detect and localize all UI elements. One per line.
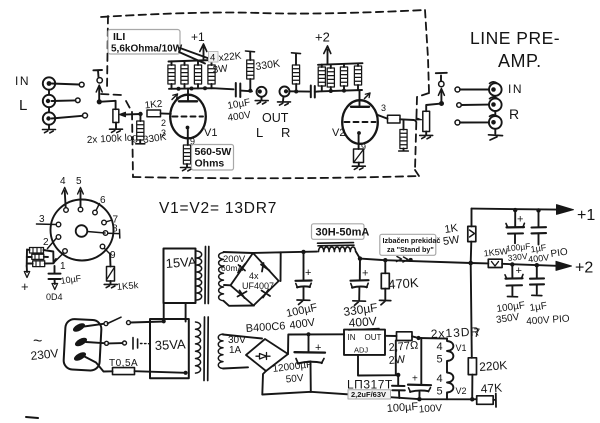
svg-text:5,6kOhma/10W: 5,6kOhma/10W <box>111 44 183 55</box>
node 330uF <box>358 256 362 260</box>
svg-text:3: 3 <box>39 214 45 225</box>
RCA jack J4 (IN R top) <box>489 83 502 96</box>
svg-text:47K: 47K <box>480 381 502 396</box>
socket pin 8 <box>103 231 108 236</box>
resistor R2 22K <box>184 61 186 65</box>
node cap 100uF 350V <box>510 262 514 266</box>
capacitor 10uF coupling V2 <box>310 86 312 98</box>
svg-text:+2: +2 <box>575 260 593 277</box>
svg-text:V2: V2 <box>456 386 467 396</box>
svg-text:1K5k: 1K5k <box>116 280 139 293</box>
node 12000uF top <box>306 332 310 336</box>
resistor 1K5 <box>109 254 112 267</box>
svg-text:100V: 100V <box>418 403 442 416</box>
svg-text:2W: 2W <box>388 354 406 367</box>
svg-text:4: 4 <box>437 341 443 353</box>
resistor 330K output R <box>292 52 301 55</box>
wire T1 sec top to bridge <box>224 252 253 253</box>
labels pins 2 3 <box>161 118 166 138</box>
label 4x UF4007 <box>242 271 274 291</box>
wire riser below +2 node <box>471 263 473 399</box>
label 30V 1A <box>228 335 246 356</box>
label LM317T <box>347 378 393 392</box>
svg-text:+: + <box>516 265 522 277</box>
node dots on plate bus <box>177 87 181 91</box>
socket center hole <box>76 225 88 237</box>
bridge B400C6 diamond <box>246 339 288 371</box>
capacitor 100uF 330V <box>514 210 516 227</box>
label box 2,2uF/63V <box>348 390 391 399</box>
capacitor 10uF cathode bypass <box>54 266 56 273</box>
svg-text:4: 4 <box>210 53 215 64</box>
fuse T0,5A <box>109 358 138 369</box>
resistor 1K2 <box>144 99 163 112</box>
V2 cathode <box>357 131 361 135</box>
svg-text:3: 3 <box>381 103 386 113</box>
resistor stack r2 <box>32 254 44 259</box>
svg-text:L: L <box>256 125 263 140</box>
T1 core <box>205 247 209 304</box>
resistor R1 22K <box>171 61 173 65</box>
label ~230V <box>30 333 59 363</box>
resistor 330K grid leak V1 <box>139 114 141 121</box>
standby arrows on rail <box>397 257 409 263</box>
resistor stack r3 <box>33 261 45 267</box>
mains plug outline <box>63 319 102 371</box>
wire ADJ network <box>358 341 398 376</box>
RCA jack J5 <box>489 98 502 111</box>
resistor 1K2 V2 <box>388 115 401 123</box>
svg-text:za "Stand by": za "Stand by" <box>387 245 434 254</box>
resistor R3 22K <box>197 61 199 65</box>
socket pin 4 <box>64 208 69 213</box>
svg-text:+2: +2 <box>315 30 330 45</box>
label +2 supply arrow <box>315 30 330 45</box>
wire top bus V2 bank <box>318 63 363 65</box>
transformer T1 15VA primary box <box>164 249 196 304</box>
svg-text:OUT: OUT <box>262 111 289 125</box>
wire top bus V1 bank <box>169 60 214 62</box>
node +2 feed <box>468 261 473 266</box>
svg-text:330V: 330V <box>507 251 528 263</box>
svg-text:15VA: 15VA <box>165 254 197 271</box>
svg-text:2: 2 <box>43 237 49 248</box>
capacitor 100uF 100V <box>408 384 431 387</box>
svg-text:30H-50mA: 30H-50mA <box>316 227 370 239</box>
svg-text:V1=V2= 13DR7: V1=V2= 13DR7 <box>159 200 277 217</box>
socket pin 5 <box>78 207 83 212</box>
svg-text:5: 5 <box>437 386 443 398</box>
wire V2 grid out <box>377 115 387 119</box>
ground under right jacks <box>494 129 496 134</box>
svg-text:2,2uF/63V: 2,2uF/63V <box>351 390 386 399</box>
resistor 470K bleeder <box>384 260 386 273</box>
transformer T2 35VA primary box <box>150 319 189 378</box>
svg-text:+1: +1 <box>191 30 205 44</box>
node cap 100uF 330V <box>513 208 517 212</box>
svg-text:470K: 470K <box>388 275 420 292</box>
T2 secondary 30V winding <box>218 334 223 368</box>
wire LM317 OUT <box>385 335 397 337</box>
potentiometer P1b 100k <box>414 118 422 123</box>
wire J1 to selector contact <box>52 84 80 85</box>
node: grid junction <box>138 112 142 116</box>
svg-text:100µF: 100µF <box>386 401 418 415</box>
resistor 330K output L <box>246 50 255 53</box>
capacitor 330uF 400V <box>359 259 361 280</box>
svg-text:8: 8 <box>112 224 118 235</box>
selector common contact with arrow <box>93 70 102 77</box>
label box ILI 5,6kOhma/10W <box>108 30 180 55</box>
svg-text:1A: 1A <box>229 345 242 356</box>
svg-text:R: R <box>281 125 290 140</box>
dashed enclosure box of preamp <box>101 10 429 178</box>
svg-text:6: 6 <box>100 195 106 206</box>
svg-text:+: + <box>362 268 368 280</box>
plug pin a <box>72 322 85 332</box>
svg-text:IN: IN <box>348 333 356 342</box>
wire plug pin c to fuse <box>85 357 113 372</box>
label box 30H-50mA <box>312 224 365 240</box>
svg-text:5W: 5W <box>442 234 461 248</box>
RCA jack J2 <box>43 95 55 107</box>
tube socket outline <box>51 200 114 261</box>
wire bottom bus V2 bank (plate node) <box>322 85 358 91</box>
wire riser +1 <box>470 209 473 263</box>
V1 grid (dashed) <box>173 116 204 118</box>
wire T2 sec bottom to bridge2 <box>223 367 248 368</box>
svg-text:ILI: ILI <box>113 31 125 43</box>
resistor R8 22K <box>357 64 359 66</box>
wire parallel primaries <box>164 303 186 322</box>
capacitor 100uF 400V <box>303 252 305 280</box>
RCA jack J6 <box>489 116 502 129</box>
tube V2 envelope <box>342 100 378 144</box>
label IN (left inputs) <box>15 74 30 114</box>
svg-text:0D4: 0D4 <box>46 292 63 302</box>
svg-text:50V: 50V <box>285 373 304 386</box>
label +1 supply arrow <box>191 30 205 44</box>
svg-text:R: R <box>509 106 519 122</box>
label 4x22K 3W <box>209 52 219 63</box>
regulator U1 LM317 <box>344 330 385 355</box>
wire bridge2 - to ground bus <box>262 371 266 395</box>
heater feed line down <box>420 338 422 384</box>
resistor 220K body <box>468 358 476 375</box>
heater V2 pins 4-5 <box>447 363 453 399</box>
T1 secondary 200V winding <box>219 253 224 301</box>
diode D4 <box>262 290 271 298</box>
wire T1 sec bottom to bridge <box>224 301 255 306</box>
wire bottom bus V1 bank (plate node) <box>172 84 212 89</box>
T1 primary winding <box>197 251 202 300</box>
V1 cathode <box>186 126 190 130</box>
heater V1 pins 4-5 <box>447 339 453 363</box>
svg-text:AMP.: AMP. <box>498 51 542 71</box>
svg-text:+: + <box>517 214 523 226</box>
wire jack chain <box>48 90 50 129</box>
scan mark bottom left <box>26 417 38 418</box>
svg-text:V1: V1 <box>456 343 467 353</box>
wire bridge2 + to LM317 IN <box>288 334 344 354</box>
wire junction to pot <box>99 101 115 110</box>
bridge 4x UF4007 diamond <box>231 253 279 306</box>
T2 primary winding <box>196 322 201 373</box>
wire plug pin b to aux contact <box>86 342 105 343</box>
svg-text:L: L <box>19 97 27 114</box>
wire J2 to selector contact <box>52 99 76 102</box>
label 2x 100k log <box>87 132 139 146</box>
capacitor 1uF 400V PIO 2 <box>536 265 538 278</box>
svg-text:560-5W: 560-5W <box>195 146 232 158</box>
svg-text:+1: +1 <box>577 207 595 224</box>
resistor 1K5W horizontal <box>483 246 509 259</box>
plug pin c <box>73 351 86 361</box>
V2 grid (dashed) <box>345 121 376 123</box>
ground arrow left (+) <box>26 266 28 272</box>
label box Izbacen prekidac <box>380 234 436 255</box>
switch S1 <box>104 322 108 326</box>
svg-text:OUT: OUT <box>365 333 382 342</box>
svg-text:Ohms: Ohms <box>195 158 225 170</box>
label IN R <box>508 82 523 122</box>
node: selector junction <box>97 99 102 104</box>
ground under pot P1a <box>115 123 117 129</box>
socket pin 3 <box>56 222 61 227</box>
title LINE PRE-AMP <box>470 28 560 71</box>
socket pin 6 <box>93 210 98 215</box>
resistor R5 22K <box>321 65 323 67</box>
capacitor 1uF 400V PIO <box>538 210 540 227</box>
socket pin 1 <box>63 249 68 254</box>
svg-text:220K: 220K <box>479 358 508 374</box>
svg-text:3W: 3W <box>212 63 229 76</box>
resistor R4 22K <box>211 60 213 65</box>
node 470K <box>383 258 387 262</box>
svg-text:+: + <box>412 374 418 385</box>
RCA jack J1 (IN L top) <box>43 77 55 89</box>
svg-text:+: + <box>305 267 311 279</box>
svg-text:2: 2 <box>161 118 166 128</box>
label box 560-5W Ohms <box>192 145 234 171</box>
wire plug pin a to switch <box>84 324 104 327</box>
svg-text:IN: IN <box>15 74 30 88</box>
svg-text:5: 5 <box>76 176 82 187</box>
svg-text:1: 1 <box>60 261 66 272</box>
potentiometer P1a 100k <box>113 109 119 122</box>
label 2x13DR7 <box>430 324 480 341</box>
label 200V 60mA <box>221 254 246 273</box>
wire winding to left vertex <box>224 284 231 286</box>
svg-text:4: 4 <box>60 176 66 187</box>
svg-text:35VA: 35VA <box>154 336 186 353</box>
label B400C6 <box>245 320 286 335</box>
node first filter cap <box>301 250 305 254</box>
svg-text:3: 3 <box>161 128 166 138</box>
diode D3 <box>238 291 247 299</box>
label V1=V2=13DR7 <box>159 200 277 217</box>
resistor stack r1 <box>30 248 44 254</box>
selector contacts right side <box>455 87 460 92</box>
wire bridge + output to rail <box>253 252 317 281</box>
capacitor 2,2uF <box>397 375 399 385</box>
node cap 1uF PIO 2 <box>535 263 539 267</box>
resistor 220K <box>479 358 508 374</box>
node cap 1uF PIO <box>536 208 540 212</box>
selector contact R with arrow <box>440 92 442 102</box>
V1 plate <box>179 100 197 102</box>
pin 1 arrow at V2 plate <box>365 93 371 99</box>
svg-text:+: + <box>315 342 321 354</box>
plug pin b <box>74 337 87 347</box>
svg-text:7: 7 <box>474 326 481 340</box>
resistor cathode V2 <box>354 149 364 163</box>
resistor 47K <box>472 398 477 400</box>
svg-text:ADJ: ADJ <box>354 346 368 355</box>
svg-text:IN: IN <box>508 82 523 96</box>
resistor R6 22K <box>330 64 332 68</box>
capacitor 12000uF 50V <box>308 334 310 352</box>
wire stack left bus <box>27 250 33 267</box>
+1 rail <box>472 209 558 210</box>
wire jack chain right <box>494 96 496 116</box>
svg-text:400V: 400V <box>348 314 377 330</box>
svg-text:V2: V2 <box>332 127 345 139</box>
svg-text:LINE PRE-: LINE PRE- <box>470 28 560 48</box>
label pin 3 V2 <box>381 103 386 113</box>
resistor R7 22K <box>343 64 345 67</box>
callout lines from ILI box <box>179 48 213 64</box>
wire T2 sec top to bridge2 <box>223 335 262 339</box>
wire OUT R to V2 plate network <box>289 90 309 92</box>
B+ rail after choke <box>356 252 471 263</box>
diode D2 <box>261 263 270 272</box>
resistor 1K 5W <box>468 226 476 241</box>
wire pot to selector R <box>426 104 441 112</box>
ground under 560 <box>181 168 194 171</box>
RCA jack OUT R <box>280 87 290 97</box>
capacitor 10uF 400V coupling V1 <box>235 83 237 97</box>
svg-text:4x: 4x <box>249 271 259 281</box>
label OUT L R <box>256 111 290 140</box>
svg-text:230V: 230V <box>30 346 59 363</box>
wire J3 to selector contact <box>52 116 83 119</box>
diode D1 <box>238 264 246 273</box>
ground under jacks <box>43 130 56 133</box>
svg-text:Izbačen prekidač: Izbačen prekidač <box>383 236 441 245</box>
wire stack right bus <box>44 250 57 264</box>
tube V1 envelope <box>170 95 206 139</box>
ground under V2 cathode resistor <box>352 166 365 169</box>
capacitor 100uF 350V <box>511 264 513 278</box>
svg-text:UF4007: UF4007 <box>242 281 274 291</box>
wire contacts to IN R jacks <box>460 90 489 123</box>
choke L1 core <box>318 243 355 246</box>
socket pin 2 <box>56 235 61 240</box>
socket pin 7 <box>102 220 107 225</box>
svg-text:5: 5 <box>437 354 443 366</box>
svg-text:+: + <box>21 279 29 294</box>
V2 plate <box>351 106 369 108</box>
resistor 2,77R 2W <box>397 332 413 341</box>
svg-text:V1: V1 <box>204 127 217 139</box>
+2 rail <box>471 263 557 266</box>
pin 1 arrow at V1 plate <box>172 94 178 100</box>
RCA jack J3 <box>43 112 55 124</box>
RCA jack OUT L <box>257 87 267 97</box>
choke L1 winding <box>319 247 356 252</box>
svg-text:4: 4 <box>437 373 443 385</box>
diode symbol inside B400C6 <box>256 353 270 360</box>
resistor 330K grid leak V2 <box>403 120 405 130</box>
socket pin 9 <box>100 244 105 249</box>
resistor 560 ohm cathode V1 <box>183 145 190 164</box>
ground bus bottom <box>262 392 472 400</box>
T2 core <box>204 317 208 381</box>
